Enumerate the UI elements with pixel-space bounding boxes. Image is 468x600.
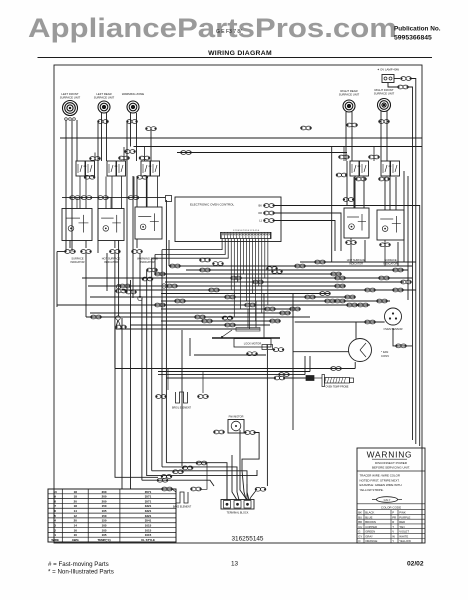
svg-text:UL STYLE: UL STYLE (141, 538, 155, 542)
svg-text:18: 18 (74, 504, 78, 508)
svg-text:SURFACE UNIT: SURFACE UNIT (94, 96, 115, 100)
svg-text:150: 150 (102, 519, 107, 523)
svg-text:V: V (392, 530, 394, 534)
svg-text:ELECTRONIC OVEN CONTROL: ELECTRONIC OVEN CONTROL (190, 203, 235, 207)
svg-text:105: 105 (102, 528, 107, 532)
svg-text:AppliancePartsPros.com: AppliancePartsPros.com (28, 13, 397, 43)
svg-text:150: 150 (102, 514, 107, 518)
svg-text:W: W (392, 534, 395, 538)
svg-text:RED: RED (399, 520, 405, 524)
svg-text:200: 200 (102, 499, 107, 503)
svg-text:LOCK MOTOR: LOCK MOTOR (244, 342, 262, 346)
svg-text:20: 20 (74, 499, 78, 503)
svg-text:BR: BR (358, 520, 362, 524)
svg-text:BK: BK (259, 204, 263, 208)
svg-text:GRAY: GRAY (365, 534, 373, 538)
svg-text:3321: 3321 (145, 504, 152, 508)
svg-text:P: P (392, 511, 394, 515)
svg-text:1 2 3 4 5 6 7 8 9 0 1 2 3 4 5: 1 2 3 4 5 6 7 8 9 0 1 2 3 4 5 6 (233, 230, 260, 232)
svg-text:WHITE: WHITE (399, 534, 408, 538)
svg-text:EXAMPLE: GREEN WIRE WITH: EXAMPLE: GREEN WIRE WITH (360, 483, 402, 487)
svg-text:WIRING DIAGRAM: WIRING DIAGRAM (208, 50, 272, 57)
svg-text:WARMING ZONE: WARMING ZONE (122, 92, 144, 96)
svg-text:INDICATOR: INDICATOR (140, 260, 154, 264)
svg-text:10: 10 (74, 533, 78, 537)
svg-text:YELLOW STRIPE.: YELLOW STRIPE. (360, 488, 384, 492)
svg-text:COLOR CODE: COLOR CODE (381, 505, 401, 509)
svg-text:150: 150 (102, 504, 107, 508)
svg-text:5995366845: 5995366845 (394, 35, 432, 42)
svg-text:10: 10 (54, 490, 58, 494)
svg-text:# = Fast-moving Parts: # = Fast-moving Parts (48, 561, 109, 568)
svg-text:PURPLE: PURPLE (399, 515, 410, 519)
svg-text:HOT SURFACE: HOT SURFACE (347, 258, 366, 262)
svg-text:SURFACE UNIT: SURFACE UNIT (339, 93, 360, 97)
svg-text:ORANGE: ORANGE (365, 539, 377, 543)
svg-text:COPPER: COPPER (365, 525, 377, 529)
svg-text:20: 20 (74, 519, 78, 523)
svg-text:16: 16 (74, 528, 78, 532)
svg-text:14: 14 (74, 509, 78, 513)
svg-text:3571: 3571 (145, 499, 152, 503)
svg-text:HOT SURFACE: HOT SURFACE (102, 257, 121, 261)
svg-text:GREEN: GREEN (365, 530, 375, 534)
svg-text:TEMP(°C): TEMP(°C) (97, 538, 110, 542)
svg-text:✦ OV LAMP 40W: ✦ OV LAMP 40W (377, 68, 399, 72)
svg-text:200: 200 (102, 495, 107, 499)
svg-text:BU: BU (358, 515, 362, 519)
svg-text:1015: 1015 (145, 528, 152, 532)
svg-text:CU: CU (358, 525, 362, 529)
svg-text:OR: OR (258, 211, 262, 215)
svg-text:R: R (392, 520, 394, 524)
svg-text:GN-Y: GN-Y (384, 498, 391, 502)
svg-text:105: 105 (102, 523, 107, 527)
svg-text:OVEN TEMP PROBE: OVEN TEMP PROBE (325, 386, 348, 389)
svg-text:316255145: 316255145 (232, 536, 264, 543)
svg-text:Publication No.: Publication No. (394, 26, 441, 33)
svg-text:02/02: 02/02 (407, 561, 424, 568)
svg-text:GY: GY (358, 534, 362, 538)
svg-text:G: G (358, 530, 360, 534)
svg-text:BROWN: BROWN (365, 520, 376, 524)
svg-text:BEFORE SERVICING UNIT.: BEFORE SERVICING UNIT. (372, 465, 410, 469)
svg-text:18: 18 (74, 495, 78, 499)
svg-text:BLACK: BLACK (365, 511, 374, 515)
svg-text:12: 12 (74, 514, 78, 518)
svg-text:1015: 1015 (145, 533, 152, 537)
svg-text:CONV: CONV (381, 354, 389, 358)
svg-text:AWG: AWG (72, 538, 80, 542)
svg-text:TRACER WIRE: WIRE COLOR: TRACER WIRE: WIRE COLOR (360, 474, 400, 478)
svg-text:WARNING: WARNING (367, 450, 413, 460)
svg-text:Y: Y (392, 539, 394, 543)
svg-text:3571: 3571 (145, 495, 152, 499)
svg-text:SURFACE: SURFACE (384, 258, 397, 262)
svg-text:YELLOW: YELLOW (399, 539, 411, 543)
svg-text:BK: BK (358, 511, 362, 515)
svg-text:SURFACE UNIT: SURFACE UNIT (60, 96, 81, 100)
svg-text:3321: 3321 (145, 509, 152, 513)
svg-text:200: 200 (102, 490, 107, 494)
svg-text:* = Non-Illustrated Parts: * = Non-Illustrated Parts (48, 569, 114, 576)
svg-text:13: 13 (231, 561, 239, 568)
svg-text:FAN MOTOR: FAN MOTOR (229, 416, 244, 419)
svg-text:3541: 3541 (145, 519, 152, 523)
svg-text:NOTED FIRST, STRIPE NEXT.: NOTED FIRST, STRIPE NEXT. (360, 478, 400, 482)
svg-text:SURFACE: SURFACE (71, 257, 84, 261)
svg-text:TERMINAL BLOCK: TERMINAL BLOCK (227, 512, 249, 515)
svg-text:3571: 3571 (145, 490, 152, 494)
svg-text:1015: 1015 (145, 523, 152, 527)
svg-text:PR: PR (392, 515, 396, 519)
svg-text:WIRE: WIRE (51, 538, 59, 542)
svg-text:INDICATOR: INDICATOR (104, 260, 118, 264)
svg-text:105: 105 (102, 533, 107, 537)
svg-text:SURFACE UNIT: SURFACE UNIT (374, 92, 395, 96)
svg-text:TAN: TAN (399, 525, 404, 529)
svg-text:18: 18 (74, 490, 78, 494)
svg-text:VIOLET: VIOLET (399, 530, 409, 534)
svg-text:G E F3 7 8/: G E F3 7 8/ (216, 29, 242, 35)
svg-text:3321: 3321 (145, 514, 152, 518)
svg-text:INDICATOR: INDICATOR (70, 260, 84, 264)
svg-text:105: 105 (102, 509, 107, 513)
svg-text:T: T (392, 525, 394, 529)
svg-text:BLUE: BLUE (365, 515, 372, 519)
svg-text:14: 14 (74, 523, 78, 527)
svg-text:PINK: PINK (399, 511, 406, 515)
